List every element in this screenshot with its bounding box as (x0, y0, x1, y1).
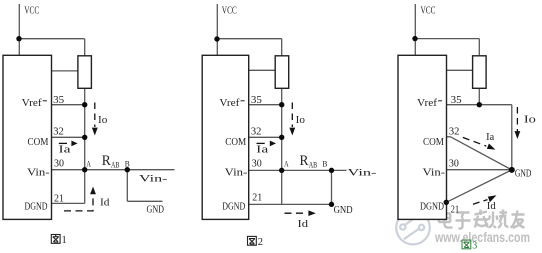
svg-text:30: 30 (54, 159, 64, 170)
svg-text:Io: Io (98, 115, 107, 126)
svg-text:R: R (102, 153, 111, 169)
svg-text:COM: COM (423, 137, 444, 148)
svg-text:32: 32 (251, 127, 262, 138)
svg-text:Id: Id (100, 197, 110, 208)
svg-text:AB: AB (111, 161, 120, 170)
svg-text:B: B (322, 158, 327, 168)
svg-text:A: A (86, 158, 91, 168)
svg-text:32: 32 (53, 127, 64, 138)
svg-text:21: 21 (54, 194, 64, 205)
svg-text:Io: Io (296, 115, 305, 126)
svg-text:35: 35 (451, 95, 462, 106)
svg-text:21: 21 (451, 205, 460, 216)
svg-text:Vin-: Vin- (139, 175, 168, 185)
svg-text:Id: Id (487, 201, 496, 212)
svg-text:GND: GND (147, 205, 165, 216)
svg-text:VCC: VCC (421, 6, 436, 17)
svg-text:1: 1 (62, 235, 67, 246)
svg-text:30: 30 (449, 159, 459, 170)
svg-text:32: 32 (449, 126, 460, 137)
svg-text:Vin-: Vin- (423, 168, 446, 179)
svg-text:35: 35 (251, 95, 262, 106)
svg-text:Ia: Ia (486, 132, 495, 143)
svg-text:Ia: Ia (256, 145, 269, 156)
svg-text:Vin-: Vin- (348, 169, 377, 179)
svg-text:GND: GND (334, 205, 353, 216)
svg-text:30: 30 (252, 159, 262, 170)
svg-text:VCC: VCC (222, 6, 237, 17)
svg-text:A: A (284, 158, 289, 168)
svg-text:Vref: Vref (219, 98, 240, 109)
svg-text:Io: Io (524, 115, 536, 126)
svg-text:21: 21 (252, 193, 262, 204)
svg-text:Ia: Ia (59, 145, 72, 156)
svg-text:Vin-: Vin- (225, 168, 248, 179)
svg-text:Vin-: Vin- (27, 168, 50, 179)
svg-text:DGND: DGND (222, 201, 245, 212)
svg-text:3: 3 (472, 240, 477, 251)
svg-text:Vref: Vref (22, 98, 43, 109)
svg-text:VCC: VCC (24, 6, 39, 17)
svg-text:www.elecfans.com: www.elecfans.com (434, 230, 530, 245)
svg-text:2: 2 (258, 237, 263, 248)
svg-text:AB: AB (309, 161, 318, 170)
svg-text:Id: Id (298, 219, 309, 230)
svg-text:COM: COM (225, 137, 246, 148)
svg-text:35: 35 (53, 95, 64, 106)
svg-text:COM: COM (28, 137, 49, 148)
svg-text:Vref: Vref (417, 98, 438, 109)
svg-text:GND: GND (515, 169, 532, 180)
svg-text:DGND: DGND (420, 201, 444, 212)
svg-text:DGND: DGND (25, 201, 48, 212)
svg-text:R: R (300, 153, 309, 169)
svg-text:B: B (125, 158, 130, 168)
